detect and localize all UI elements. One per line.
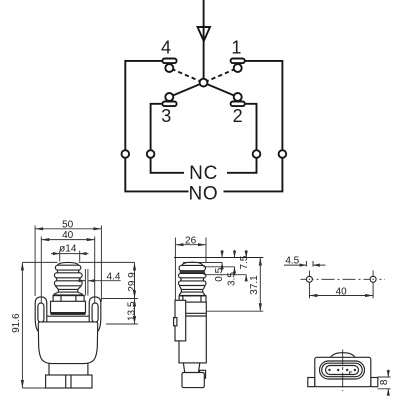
dim 40 line [41, 239, 94, 241]
side view bellows ring 2 [179, 273, 207, 277]
front view flange dark band [51, 313, 86, 315]
NO bracket wires [125, 158, 282, 191]
svg-text:13.5: 13.5 [127, 301, 138, 321]
arrowheads 37.1 [259, 258, 262, 266]
dim 13.5 bottom extension [106, 323, 138, 325]
side view bellows ring 1 [179, 265, 205, 270]
arrowheads 4.4 [79, 279, 86, 282]
svg-text:4: 4 [161, 38, 171, 58]
connector view pin 2 [337, 369, 339, 371]
side view plate tab [174, 318, 177, 326]
svg-text:4.5: 4.5 [285, 256, 299, 267]
arrowheads 7.5 [245, 251, 248, 258]
arrowheads 8 [387, 370, 390, 377]
side view bellows neck [181, 289, 202, 292]
svg-text:26: 26 [185, 235, 197, 246]
lead circle NC right [253, 150, 261, 158]
dim 29.9 line [134, 262, 136, 298]
svg-text:ø14: ø14 [59, 244, 77, 255]
hole pattern centerline horizontal [301, 278, 386, 280]
front view bellows waist 2 [56, 278, 81, 281]
front view body [38, 322, 97, 364]
wire dashed to terminal 1 (NO side) [206, 69, 235, 82]
wire terminal 3 to NC left lead [151, 104, 163, 150]
svg-text:50: 50 [62, 219, 74, 230]
svg-text:1: 1 [231, 38, 241, 58]
svg-text:8: 8 [379, 379, 390, 385]
terminal blade 2 [231, 102, 245, 107]
svg-text:40: 40 [336, 286, 348, 297]
arrowheads o14 outside [53, 252, 60, 255]
dim 4.5 ticks [306, 261, 313, 267]
arrowheads 4.5 [300, 264, 307, 267]
arrowheads 29.9 [133, 262, 136, 270]
front view bellows skirt [55, 286, 81, 290]
front view bellows base flare [53, 292, 82, 294]
svg-text:NO: NO [188, 184, 218, 205]
terminal blade 1 [231, 59, 245, 64]
actuator arrow symbol [198, 27, 211, 41]
front view bellows neck [58, 289, 77, 292]
connector view left flange [308, 378, 315, 387]
svg-text:37.1: 37.1 [249, 275, 260, 295]
dim 4.5 lines [284, 264, 326, 266]
svg-text:2: 2 [233, 106, 243, 126]
svg-text:3: 3 [161, 106, 171, 126]
wire dashed to terminal 4 (NO side) [172, 69, 201, 82]
side view bellows ring 3 [179, 281, 207, 286]
dim 50 line [35, 228, 101, 230]
arrowheads 3.5 [233, 251, 236, 258]
dim 26 line [175, 244, 206, 246]
terminal blade 4 [162, 59, 176, 64]
connector view centerline [342, 350, 344, 392]
contact circle terminal 1 [234, 64, 242, 72]
connector view middle oval [322, 363, 363, 377]
front view hex flats [61, 296, 76, 302]
front view left ear [35, 297, 47, 333]
wire terminal 1 to NO right lead [245, 61, 283, 150]
arrowheads 91.6 [21, 262, 24, 270]
svg-text:91.6: 91.6 [11, 313, 22, 333]
svg-text:40: 40 [62, 230, 74, 241]
dim 29.9 / 13.5 shared extension [102, 298, 138, 300]
front view right ear [89, 297, 101, 333]
dim 91.6 line [21, 262, 23, 388]
side view cap top reference line [183, 261, 222, 263]
side view bellows skirt [179, 286, 205, 290]
arrowheads 40 holes [309, 294, 317, 297]
side view body [179, 302, 206, 363]
arrowheads 13.5 [133, 299, 136, 307]
front view bellows ring 1 [55, 265, 80, 270]
lead circle NO left [122, 150, 130, 158]
connector view dome [331, 353, 356, 358]
dim 26 extension lines [175, 238, 206, 301]
hole pattern right hole centerline vertical [372, 271, 374, 299]
front view plate line [47, 315, 89, 317]
front view connector [46, 375, 92, 388]
connector view outer oval [320, 361, 365, 379]
connector view right flange [371, 378, 378, 387]
dim 37.1 line [206, 258, 263, 312]
connector view inner oval [326, 366, 359, 375]
dim 8 line [387, 370, 389, 396]
arrowheads 0.5 [221, 251, 224, 258]
hole pattern left hole centerline vertical [308, 271, 310, 299]
svg-text:0.5: 0.5 [214, 267, 225, 281]
side view mounting plate [175, 300, 186, 341]
svg-text:7.5: 7.5 [239, 255, 250, 269]
side view base dark line [179, 295, 206, 296]
side view connector hook [200, 370, 206, 378]
dim 50 extension lines [35, 226, 101, 302]
wire terminal 2 to NC right lead [245, 104, 257, 150]
side view dark gap band [180, 271, 205, 274]
dim o14 line [51, 253, 88, 255]
side view bellows waist 2 [180, 278, 204, 281]
wire solid to terminal 3 (NC side) [169, 83, 203, 97]
svg-text:NC: NC [189, 163, 218, 184]
side view bellows flare [179, 292, 205, 295]
side view collar lines [183, 296, 201, 302]
connector view pin 1 [328, 369, 330, 371]
dim 3.5 line [203, 250, 234, 275]
side view collar [179, 296, 206, 302]
dim 7.5 line [204, 250, 247, 280]
arrowheads 26 [175, 243, 183, 246]
svg-text:29.9: 29.9 [127, 272, 138, 292]
arrowheads 50 [35, 227, 43, 230]
connector view key notch [350, 372, 353, 374]
arrowheads 40 [41, 238, 49, 241]
NC bracket wires [151, 158, 257, 173]
front view bellows ring 3 [54, 281, 82, 286]
front view right ear slot [92, 303, 98, 322]
terminal blade 3 [162, 102, 176, 107]
dim o14 extension lines [60, 251, 80, 262]
dim 4.4 lines [78, 280, 121, 282]
connector view pin 3 [346, 369, 348, 371]
connector view housing [315, 357, 371, 386]
front view bellows base dark line [53, 294, 83, 295]
dim 8 extension lines [378, 377, 391, 389]
side view connector [182, 373, 204, 388]
svg-text:4.4: 4.4 [107, 271, 121, 282]
connector view pin 4 [354, 369, 356, 371]
side view body double lines [186, 313, 207, 316]
side view lower neck [183, 363, 199, 373]
wire solid to terminal 2 (NC side) [204, 83, 238, 97]
front view connector rib [66, 375, 71, 388]
front view step sides [49, 364, 88, 376]
dim 4.4 ticks [85, 269, 88, 296]
contact circle terminal 3 [165, 93, 173, 101]
contact circle terminal 2 [234, 93, 242, 101]
front view left ear slot [38, 303, 44, 322]
hole pattern left hole [306, 276, 312, 282]
front view flange [51, 301, 86, 312]
hole pattern right hole [370, 276, 376, 282]
front view hex section [53, 296, 84, 302]
dim 91.6 extension lines [22, 262, 134, 388]
front view bellows waist 1 [57, 270, 80, 273]
dim 40 holes line [309, 295, 373, 297]
lead circle NC left [147, 150, 155, 158]
dim 13.5 line [134, 299, 136, 325]
side view plunger dome [182, 262, 203, 265]
front view bellows ring 2 [54, 273, 82, 278]
front view plunger dome [58, 262, 79, 265]
side view travel reference line [174, 257, 263, 259]
lead circle NO right [279, 150, 287, 158]
contact circle terminal 4 [165, 64, 173, 72]
wire terminal 4 to NO left lead [125, 61, 162, 150]
node common pivot [200, 79, 208, 87]
dim 40 extension lines [41, 237, 94, 304]
dim 0.5 line [221, 250, 223, 271]
svg-text:3.5: 3.5 [226, 272, 237, 286]
wire common actuator lead [203, 0, 205, 79]
